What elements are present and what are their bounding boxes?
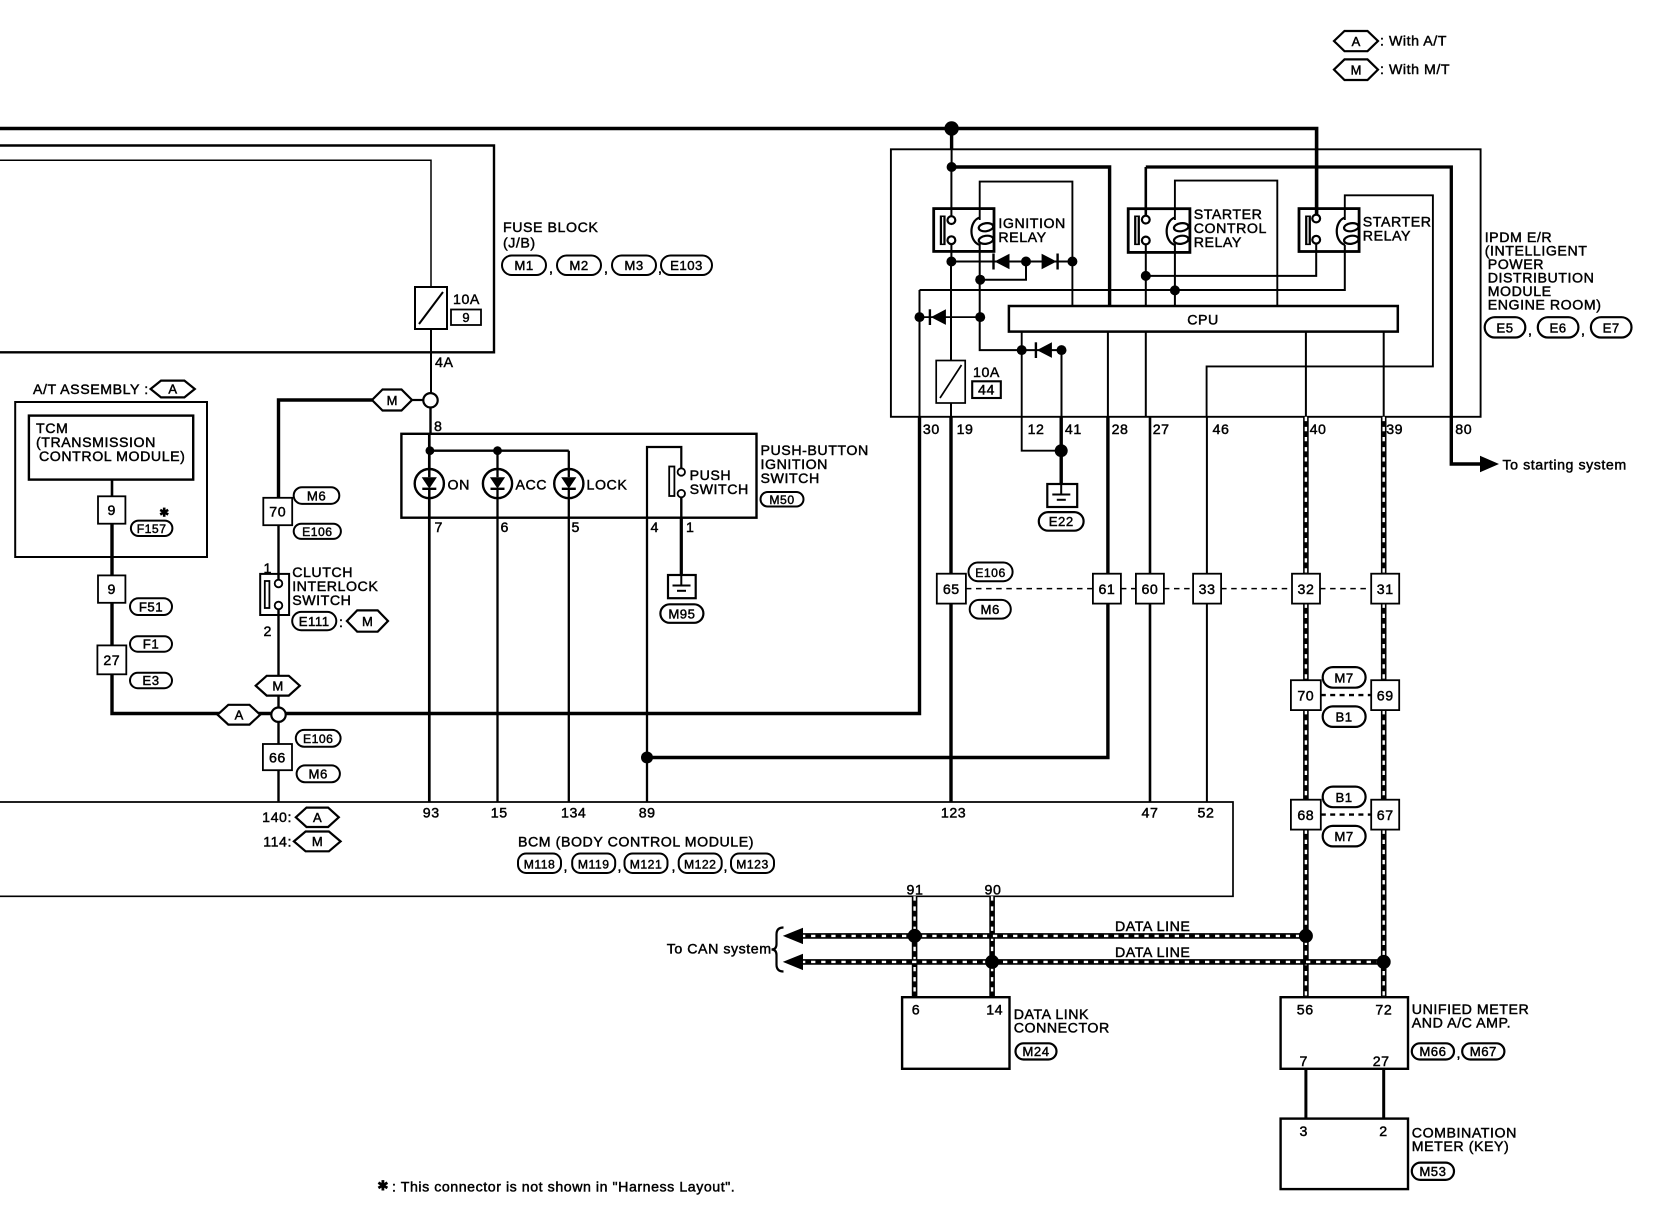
IPDM outline (891, 149, 1481, 417)
svg-text:80: 80 (1455, 422, 1472, 438)
indicator ON (415, 469, 470, 498)
svg-text:2: 2 (264, 624, 272, 640)
svg-text:89: 89 (639, 806, 656, 822)
label UNIFIED METER AND A/C AMP (1412, 1002, 1530, 1032)
connector oval E103 (661, 256, 712, 276)
node power junction dot (944, 121, 958, 135)
wire diode bus 261 (951, 261, 1072, 263)
svg-text:,: , (618, 859, 623, 875)
svg-text:M7: M7 (1334, 829, 1353, 844)
svg-text:E5: E5 (1496, 320, 1513, 335)
svg-text:ACC: ACC (516, 478, 548, 494)
svg-text:4: 4 (651, 520, 659, 536)
connector oval F1 (130, 636, 172, 651)
svg-text:,: , (672, 859, 677, 875)
pin labels 7 6 5 4 1 (435, 520, 695, 536)
node dot bus right (1067, 257, 1077, 267)
svg-text:(J/B): (J/B) (503, 236, 536, 252)
svg-text:E111: E111 (299, 614, 330, 629)
svg-text:93: 93 (423, 806, 440, 822)
connector oval M2 (557, 256, 601, 276)
svg-text:E3: E3 (142, 673, 159, 688)
label PUSH-BUTTON IGNITION SWITCH (761, 443, 869, 487)
connector oval M122 (679, 854, 722, 874)
node dot dataline2 x90 (985, 955, 999, 969)
node dot 317 (975, 312, 985, 322)
diode D4 left-pointing (1036, 342, 1052, 358)
dashed 68-67 (1321, 813, 1371, 815)
wire pin39 inside (1383, 332, 1385, 417)
wire coil bus 290 (920, 245, 1345, 290)
COMBINATION METER (1281, 1119, 1408, 1190)
pin box 31 (1371, 574, 1399, 604)
connector oval E3 (130, 673, 172, 688)
pin box 65 (937, 574, 966, 604)
svg-text:M123: M123 (736, 857, 769, 871)
wire pin 1 to ground (680, 518, 683, 575)
svg-text:M: M (1351, 63, 1362, 78)
svg-text:70: 70 (1297, 689, 1314, 705)
svg-text:M24: M24 (1022, 1044, 1049, 1059)
svg-text:66: 66 (269, 750, 286, 766)
wire ignition relay contact feed (950, 167, 952, 220)
node dot on wire 89 (641, 752, 653, 764)
svg-text:,: , (549, 261, 554, 277)
svg-text:RELAY: RELAY (1194, 235, 1242, 251)
svg-text:9: 9 (462, 310, 469, 325)
svg-text:3: 3 (1300, 1124, 1308, 1140)
svg-text:,: , (1528, 323, 1533, 339)
svg-text:12: 12 (1028, 422, 1045, 438)
wire pin40 inside (1305, 332, 1307, 417)
svg-text:LOCK: LOCK (587, 478, 628, 494)
fuse number box 9 (451, 310, 481, 326)
wire pin9 to pin9 (110, 524, 113, 576)
svg-text:M122: M122 (684, 857, 717, 871)
UNIFIED METER AND A/C AMP (1281, 997, 1408, 1070)
svg-text:M3: M3 (624, 258, 643, 273)
svg-text:91: 91 (907, 883, 924, 899)
dashed 70-69 (1321, 694, 1371, 696)
diode D2 right-pointing (1042, 254, 1058, 270)
svg-text:14: 14 (986, 1003, 1003, 1019)
wire pin28 to 61 to wire89 (647, 417, 1108, 758)
wire pin19 to 65 to BCM123 (949, 417, 952, 802)
svg-text:,: , (604, 261, 609, 277)
CPU box (1009, 306, 1398, 332)
svg-text:5: 5 (572, 520, 580, 536)
node dot dataline1 x40 (1299, 929, 1313, 943)
connector oval E5 (1485, 317, 1526, 337)
pin box 69 (1371, 680, 1399, 710)
svg-text:E22: E22 (1049, 514, 1074, 529)
label IPDM E/R block (1485, 230, 1602, 314)
connector oval M67 (1462, 1043, 1504, 1059)
connector oval B1 (1323, 706, 1366, 727)
svg-text:61: 61 (1098, 582, 1115, 598)
connector oval M118 (518, 854, 561, 874)
svg-text:56: 56 (1297, 1003, 1314, 1019)
wire control coil to CPU (1174, 244, 1176, 306)
node dot coil line 279 (975, 275, 985, 285)
IPDM pin labels (923, 422, 1472, 438)
svg-text:60: 60 (1141, 582, 1158, 598)
label STARTER RELAY (1363, 215, 1432, 245)
svg-text:140:: 140: (262, 810, 292, 826)
svg-text:SWITCH: SWITCH (292, 593, 351, 609)
label CLUTCH INTERLOCK SWITCH (292, 565, 378, 609)
wire pin27 to 60 to BCM47 (1149, 417, 1152, 802)
svg-text:,: , (564, 859, 569, 875)
svg-text:52: 52 (1198, 806, 1215, 822)
svg-text:M6: M6 (981, 602, 1000, 617)
wire power stub into IPDM (950, 129, 953, 151)
svg-text:To CAN system: To CAN system (667, 942, 772, 958)
svg-text:65: 65 (943, 582, 960, 598)
svg-text:33: 33 (1199, 582, 1216, 598)
svg-text:A: A (168, 382, 177, 397)
svg-text:M121: M121 (630, 857, 663, 871)
DATA LINK CONNECTOR (902, 997, 1009, 1069)
svg-text:DATA LINE: DATA LINE (1115, 919, 1190, 935)
ignition relay box (934, 209, 994, 252)
node bus dot ON (426, 446, 435, 455)
wire pin27 inside (1145, 332, 1147, 417)
wire internal bus (431, 450, 569, 452)
fuse 10A no.9 (415, 287, 447, 329)
svg-text:M: M (387, 393, 398, 408)
BCM top pin labels (423, 806, 1215, 822)
svg-text:M2: M2 (569, 258, 588, 273)
wire control relay lower contact to CPU (1145, 244, 1147, 306)
hexagon A on wire (218, 705, 261, 725)
svg-text:123: 123 (941, 806, 966, 822)
node dot pin30 line (915, 312, 925, 322)
node dot diode350 left (1017, 345, 1027, 355)
wire control relay contact feed (1145, 167, 1148, 220)
svg-text:31: 31 (1377, 582, 1394, 598)
svg-text:,: , (1581, 323, 1586, 339)
wire DATA LINE 1 (783, 928, 1306, 944)
dashed connector line (966, 588, 1371, 590)
connector oval M123 (731, 854, 774, 874)
pin box 66 (263, 744, 292, 770)
wire pin80 to starting system (1451, 417, 1481, 464)
wire bus mid down-left (980, 262, 1026, 280)
svg-text:M7: M7 (1334, 671, 1353, 686)
footnote (378, 1180, 735, 1196)
node dot dataline2 x39 (1377, 955, 1391, 969)
label DATA LINK CONNECTOR (1014, 1007, 1110, 1037)
svg-text:F1: F1 (143, 637, 159, 652)
star footnote mark (163, 508, 166, 517)
hexagon M for E111 (347, 610, 388, 631)
legend hexagon A (1334, 31, 1378, 51)
wire ignition coil down (980, 244, 1062, 350)
svg-text:E103: E103 (670, 258, 703, 273)
connector oval M119 (572, 854, 615, 874)
svg-text:2: 2 (1379, 1124, 1387, 1140)
node dot mid bus (1021, 257, 1031, 267)
wire BCM91 to DLC6 (912, 896, 918, 997)
wire TCM to pin 9 (111, 480, 114, 497)
wire to push button switch (429, 408, 431, 434)
connector oval M95 (660, 604, 703, 623)
legend hexagon M (1334, 59, 1378, 80)
hexagon M below clutch switch (256, 676, 300, 696)
node dot 276 (1141, 271, 1151, 281)
svg-text:RELAY: RELAY (998, 230, 1046, 246)
label FUSE BLOCK (J/B) (503, 220, 598, 252)
indicator LOCK (554, 469, 627, 498)
node M branch hexagon (279, 390, 424, 498)
svg-text:SWITCH: SWITCH (690, 482, 749, 498)
svg-text:F51: F51 (139, 600, 163, 615)
svg-text:E106: E106 (303, 732, 333, 746)
svg-text:M: M (272, 678, 283, 693)
wire pin40 CAN upper (1303, 417, 1309, 997)
svg-text:27: 27 (1373, 1054, 1390, 1070)
svg-text:M95: M95 (668, 606, 695, 621)
svg-text:: This connector is not shown: : This connector is not shown in "Harnes… (392, 1180, 735, 1196)
connector oval M50 (761, 492, 804, 507)
wire pin39 CAN lower (1381, 417, 1387, 997)
svg-text:E7: E7 (1603, 320, 1620, 335)
svg-text:68: 68 (1297, 808, 1314, 824)
wire pin30 (919, 290, 921, 417)
svg-text:,: , (724, 859, 729, 875)
push switch symbol (647, 447, 749, 518)
svg-text:E6: E6 (1550, 320, 1567, 335)
svg-text:CONNECTOR: CONNECTOR (1014, 1021, 1110, 1037)
svg-text:CPU: CPU (1187, 313, 1219, 329)
svg-text:SWITCH: SWITCH (761, 471, 820, 487)
wires UM to combination meter (1304, 1069, 1307, 1119)
svg-text:9: 9 (107, 503, 115, 519)
svg-text:ON: ON (448, 478, 470, 494)
connector oval E106 below junction (296, 730, 341, 747)
svg-text:CONTROL MODULE): CONTROL MODULE) (39, 449, 185, 465)
node dot at 167 (947, 162, 957, 172)
svg-text:F157: F157 (137, 522, 167, 536)
svg-text:,: , (1457, 1046, 1462, 1062)
svg-text:27: 27 (103, 653, 120, 669)
svg-text:41: 41 (1065, 422, 1082, 438)
wire pin41 upper (1061, 350, 1063, 417)
brace (772, 928, 784, 972)
label IGNITION RELAY (998, 216, 1065, 246)
svg-text:47: 47 (1142, 806, 1159, 822)
connector oval E22 (1039, 512, 1084, 531)
node dot diode350 right (1057, 345, 1067, 355)
svg-text:A: A (313, 810, 322, 825)
label 10A 44 (972, 365, 1001, 399)
wire TCM chain to A junction (112, 417, 920, 714)
wire BCM90 to DLC14 (989, 896, 995, 997)
svg-text:32: 32 (1298, 582, 1315, 598)
connector oval E106 (294, 524, 341, 539)
wire pin12 (1022, 332, 1061, 451)
wire pin 4 / 89 (646, 518, 648, 802)
node dot 290 control coil (1170, 285, 1180, 295)
BCM outline (0, 802, 1233, 896)
ground M95 (668, 575, 696, 598)
pin box 9 (F51) (98, 575, 125, 602)
wire fuse to junction circle (430, 329, 432, 393)
connector oval F157 (131, 521, 173, 536)
pin box 32 (1292, 574, 1320, 604)
svg-text:M67: M67 (1470, 1044, 1497, 1059)
ground E22 (1047, 484, 1077, 507)
svg-text:M: M (312, 834, 323, 849)
connector oval M1 (502, 256, 546, 276)
pin box 67 (1371, 800, 1399, 830)
svg-text:6: 6 (501, 520, 509, 536)
diode D1 left-pointing (994, 254, 1010, 270)
svg-text:A: A (1352, 34, 1361, 49)
pin box 60 (1136, 574, 1164, 604)
svg-text:9: 9 (107, 582, 115, 598)
svg-text:E106: E106 (302, 525, 332, 539)
pin box 9 (F157) (98, 496, 125, 523)
pin box 68 (1291, 800, 1321, 830)
svg-text:DATA LINE: DATA LINE (1115, 945, 1190, 961)
hexagon A at BCM 140 (296, 808, 339, 827)
svg-text:To starting system: To starting system (1503, 458, 1627, 474)
fuse block outline (0, 146, 494, 353)
ignition relay inner circuit wires (980, 182, 1073, 306)
svg-text:114:: 114: (263, 834, 292, 850)
wire thick 167 right segment to pin80 (1146, 167, 1452, 417)
svg-text:44: 44 (978, 383, 995, 399)
pin box 33 (1193, 574, 1221, 604)
svg-text:A: A (235, 707, 244, 722)
connector oval B1 upper (1323, 787, 1366, 808)
svg-text:46: 46 (1213, 422, 1230, 438)
svg-text:METER (KEY): METER (KEY) (1412, 1139, 1510, 1155)
connector oval M6 below 66 (297, 765, 340, 782)
clutch interlock switch (260, 574, 289, 615)
svg-text:M118: M118 (524, 857, 556, 871)
connector oval M53 (1412, 1163, 1454, 1180)
svg-text:30: 30 (923, 422, 940, 438)
hexagon M at BCM 114 (294, 832, 341, 852)
wire battery power thick top (0, 129, 1317, 219)
node dot dataline1 x91 (908, 929, 922, 943)
svg-text:70: 70 (269, 505, 286, 521)
node junction circle 4A/8 (423, 393, 437, 407)
wire relay to diode bus (950, 244, 952, 262)
svg-text:M6: M6 (307, 489, 326, 504)
wire pin9 to pin27 (110, 603, 113, 646)
wire 70 to clutch switch (277, 525, 279, 580)
svg-text:M50: M50 (769, 493, 794, 507)
pin box 61 (1093, 574, 1121, 604)
wires pins 7,6,5 to BCM (428, 434, 431, 802)
label STARTER CONTROL RELAY (1194, 207, 1267, 251)
svg-text:E106: E106 (975, 566, 1005, 580)
pin box 70 (263, 498, 292, 525)
wire clutch switch to M hexagon (277, 609, 279, 802)
svg-text:7: 7 (1300, 1054, 1308, 1070)
diode D3 left-pointing (930, 309, 946, 325)
hexagon A (151, 381, 195, 398)
svg-text:: With A/T: : With A/T (1380, 34, 1447, 50)
svg-text:1: 1 (686, 520, 694, 536)
connector oval M121 (625, 854, 668, 874)
connector oval E111 (292, 612, 336, 630)
svg-text:28: 28 (1112, 422, 1129, 438)
wire feed to CPU left (952, 167, 1110, 306)
connector oval M3 (612, 256, 656, 276)
connector oval M7 lower (1323, 826, 1366, 847)
TCM box (29, 416, 193, 480)
wire pin28 inside (1107, 332, 1109, 417)
svg-text:FUSE BLOCK: FUSE BLOCK (503, 220, 598, 236)
svg-text:134: 134 (561, 806, 586, 822)
svg-text::: : (339, 615, 344, 631)
svg-text:: With M/T: : With M/T (1380, 62, 1450, 78)
node dot 12/41 join (1055, 444, 1068, 457)
wire pin46 to 33 to BCM52 (1206, 417, 1208, 802)
wire 276 to starter relay contact (1146, 243, 1316, 276)
svg-text:27: 27 (1153, 422, 1170, 438)
svg-text:4A: 4A (435, 355, 453, 371)
push button switch box (401, 434, 756, 518)
svg-text:RELAY: RELAY (1363, 229, 1411, 245)
svg-text:6: 6 (912, 1003, 920, 1019)
wire pin41 to ground (1059, 417, 1062, 484)
label COMBINATION METER (KEY) (1412, 1126, 1517, 1156)
wire fuse feed (0, 160, 431, 287)
connector oval E106 row (969, 563, 1013, 582)
wire diode 317 (920, 316, 981, 318)
svg-text:BCM (BODY CONTROL MODULE): BCM (BODY CONTROL MODULE) (518, 835, 754, 851)
node dot relay bus (946, 257, 956, 267)
fuse 10A no.44 (936, 262, 965, 417)
connector oval F51 (130, 598, 172, 615)
svg-text:67: 67 (1377, 808, 1394, 824)
arrow to starting system (1480, 456, 1499, 473)
svg-text:AND A/C AMP.: AND A/C AMP. (1412, 1016, 1511, 1032)
svg-text:M119: M119 (578, 857, 610, 871)
connector oval M6 (294, 487, 340, 504)
svg-text:15: 15 (491, 806, 508, 822)
svg-text:90: 90 (985, 883, 1002, 899)
svg-text:M1: M1 (514, 258, 533, 273)
svg-text:10A: 10A (453, 292, 480, 308)
svg-text:M: M (362, 614, 373, 629)
starter relay box (1299, 209, 1359, 252)
starter control relay inner wires (1175, 181, 1277, 306)
svg-text:39: 39 (1386, 422, 1403, 438)
svg-text:M66: M66 (1419, 1044, 1446, 1059)
A/T assembly outer box (15, 402, 207, 557)
connector oval M6 row (970, 600, 1011, 619)
node junction circle A/M (271, 708, 285, 722)
wire CPU feed from power (951, 150, 953, 167)
starter relay inner wires (1207, 195, 1433, 416)
svg-text:7: 7 (435, 520, 443, 536)
svg-text:M53: M53 (1419, 1164, 1446, 1179)
svg-text:19: 19 (957, 422, 974, 438)
connector oval M7 (1323, 667, 1366, 688)
wire DATA LINE 2 (783, 954, 1384, 970)
svg-text:69: 69 (1377, 689, 1394, 705)
svg-text:A/T ASSEMBLY :: A/T ASSEMBLY : (33, 382, 149, 398)
svg-text:10A: 10A (973, 365, 1000, 381)
node bus dot ACC (493, 446, 502, 455)
